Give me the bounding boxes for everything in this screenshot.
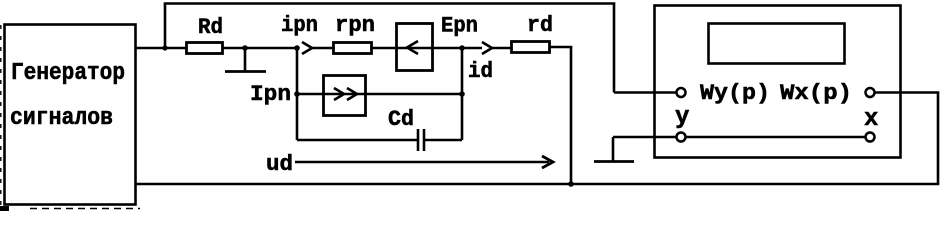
terminal x lower <box>866 133 875 142</box>
svg-text:y: y <box>675 104 689 131</box>
arrow < inside source box <box>407 41 418 54</box>
svg-text:ipn: ipn <box>281 13 318 38</box>
wire node B to arrow <box>462 47 482 50</box>
wire ud arrow <box>295 161 549 164</box>
node A junction (diode model input) <box>294 45 300 51</box>
chassis ground symbol at oscilloscope <box>612 137 615 161</box>
wire between lower terminals <box>686 136 865 139</box>
svg-text:сигналов: сигналов <box>10 105 113 132</box>
wire top horizontal line <box>164 2 616 5</box>
wire through source box <box>397 47 462 50</box>
controlled source Epn box <box>397 24 433 71</box>
wire Ipn row to source box <box>297 93 324 96</box>
wire x terminal to right rail <box>875 91 939 94</box>
wire through Ipn source box <box>324 93 462 96</box>
wire rpn to source box <box>371 47 397 50</box>
svg-text:id: id <box>468 59 493 84</box>
terminal y lower <box>677 133 686 142</box>
svg-text:Cd: Cd <box>388 107 414 132</box>
chassis symbol bar <box>225 70 266 73</box>
node junction Ipn row right <box>459 91 465 97</box>
wire vertical down to y-input <box>613 4 616 93</box>
resistor rpn <box>334 43 372 54</box>
scan artifact left edge <box>0 25 2 211</box>
svg-text:Epn: Epn <box>441 14 478 39</box>
svg-text:rpn: rpn <box>335 13 375 38</box>
controlled source Ipn box <box>324 76 366 116</box>
scan artifact generator bottom doubled <box>30 208 140 210</box>
svg-text:Генератор: Генератор <box>11 60 125 87</box>
wire right rail vertical <box>937 93 940 185</box>
wire to y terminal <box>614 91 676 94</box>
wire Cd row left <box>297 139 417 142</box>
oscilloscope screen <box>709 24 845 64</box>
wire generator output to Rd <box>135 47 187 50</box>
arrow id <box>482 42 492 54</box>
wire Rd to node <box>222 47 298 50</box>
node junction chassis tap <box>242 45 248 51</box>
capacitor Cd <box>417 129 420 151</box>
arrowhead ud <box>542 156 553 168</box>
resistor Rd <box>187 43 223 54</box>
svg-text:x: x <box>864 106 878 133</box>
svg-text:Wy(p): Wy(p) <box>700 81 770 106</box>
svg-text:Ipn: Ipn <box>250 82 291 107</box>
node junction on bottom rail <box>568 181 574 187</box>
svg-text:Wx(p): Wx(p) <box>780 81 852 106</box>
node junction at top branch <box>162 45 167 50</box>
terminal x upper <box>866 88 875 97</box>
wire arrow to rpn <box>312 47 333 50</box>
chassis ground bar <box>594 160 634 163</box>
chassis symbol stub <box>244 48 247 71</box>
resistor rd <box>512 42 550 53</box>
wire ground to lower y terminal <box>613 136 676 139</box>
wire rd to right drop <box>549 46 572 49</box>
arrow >> inside box <box>334 88 344 100</box>
wire arrow to rd <box>492 47 511 50</box>
wire vertical down to bottom rail <box>570 47 573 184</box>
node B junction <box>459 45 465 51</box>
svg-text:rd: rd <box>527 13 553 38</box>
arrow ipn <box>302 42 312 54</box>
generator box (Генератор сигналов) <box>5 25 136 205</box>
terminal y upper <box>677 88 686 97</box>
svg-text:Rd: Rd <box>198 15 223 40</box>
wire left branch vertical of inner loop <box>296 48 299 140</box>
scan artifact bottom-left blob <box>0 206 9 211</box>
wire right branch vertical of inner loop <box>461 48 464 140</box>
svg-text:ud: ud <box>266 152 293 177</box>
wire vertical up from node to top line <box>164 4 167 49</box>
wire bottom rail <box>135 183 939 186</box>
wire Cd row right <box>424 139 462 142</box>
node junction Ipn row left <box>294 91 300 97</box>
oscilloscope box <box>655 6 901 158</box>
